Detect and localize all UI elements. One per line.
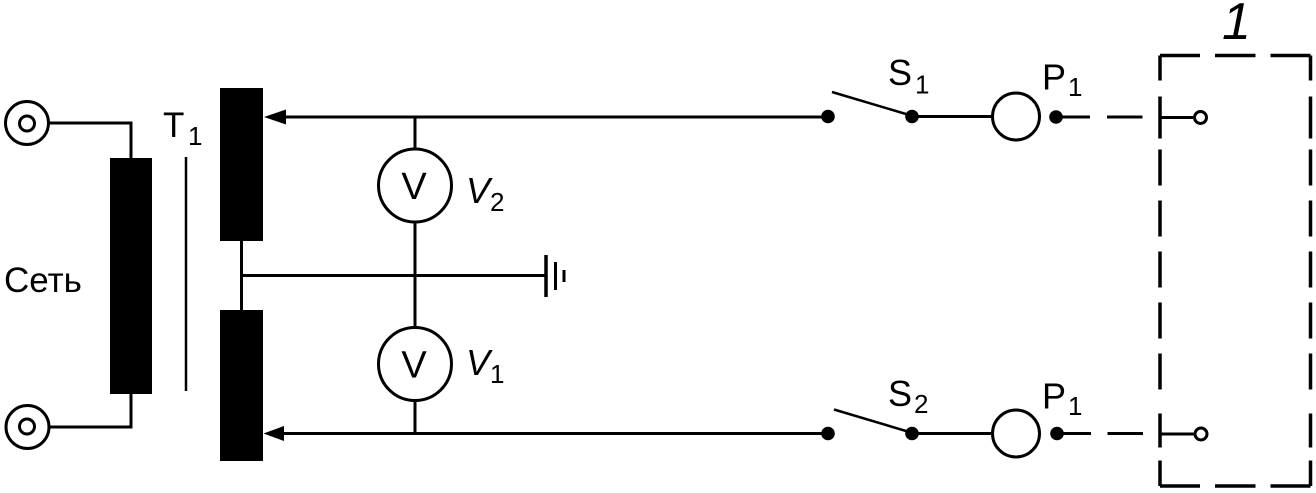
top output wire (270, 116, 828, 119)
arrow into top secondary (264, 110, 286, 125)
connector circle (bottom) (1195, 428, 1207, 440)
unit 1 dashed enclosure right edge (1309, 56, 1313, 487)
svg-text:T: T (163, 106, 184, 145)
meter branch vertical wire (top) (414, 117, 417, 276)
switch S1 blade (832, 92, 911, 116)
svg-text:1: 1 (915, 70, 929, 100)
node dot (switch S1 right contact) (905, 110, 919, 124)
bottom output wire (268, 432, 828, 435)
transformer T1 secondary winding bottom (220, 310, 263, 461)
svg-text:1: 1 (1068, 391, 1082, 421)
dash segment to unit 1 (bottom) (1108, 432, 1144, 435)
transformer T1 secondary winding top (220, 88, 263, 241)
node dot after lamp (bottom) (1050, 427, 1064, 441)
transformer T1 primary winding (110, 158, 152, 394)
node dot after lamp (top) (1049, 110, 1063, 124)
connector circle (top) (1195, 112, 1207, 124)
ground symbol (544, 255, 548, 297)
switch S2 blade (834, 410, 911, 433)
lamp P1 (bottom) (993, 410, 1040, 457)
svg-text:Сеть: Сеть (4, 261, 82, 300)
unit 1 dashed enclosure left edge (1158, 56, 1162, 487)
wire inside unit (top) (1160, 116, 1193, 119)
node dot (switch S2 left contact) (821, 427, 835, 441)
voltmeter V2 (379, 149, 452, 222)
unit 1 dashed enclosure top edge (1160, 54, 1311, 58)
wire S1 to lamp (912, 115, 992, 118)
lamp P1 (top) (993, 93, 1040, 140)
svg-text:S: S (888, 52, 912, 93)
svg-text:1: 1 (188, 121, 202, 151)
voltmeter V1 (379, 328, 452, 401)
svg-text:V: V (401, 166, 427, 208)
node dot (switch S1 left contact) (821, 110, 835, 124)
unit 1 dashed enclosure bottom edge (1160, 484, 1311, 488)
terminal bottom (mains plug) (6, 406, 49, 449)
center tap wire (240, 241, 243, 310)
wire S2 to lamp (912, 432, 992, 435)
svg-text:V: V (466, 170, 493, 211)
svg-text:1: 1 (1222, 0, 1251, 51)
arrow into bottom secondary (264, 426, 285, 441)
svg-text:S: S (888, 373, 912, 414)
middle wire to ground (242, 274, 546, 277)
svg-text:P: P (1042, 57, 1066, 98)
svg-text:1: 1 (1068, 72, 1082, 102)
svg-text:1: 1 (490, 359, 504, 389)
wire from top terminal to primary (48, 123, 131, 160)
dash segment to unit 1 (top) (1107, 116, 1143, 119)
wire from primary bottom to bottom terminal (48, 392, 131, 427)
svg-text:P: P (1042, 376, 1066, 417)
node dot (switch S2 right contact) (905, 427, 919, 441)
wire inside unit (bottom) (1160, 433, 1194, 436)
svg-text:V: V (466, 342, 493, 383)
svg-text:2: 2 (914, 389, 928, 419)
svg-text:V: V (401, 345, 427, 387)
svg-text:2: 2 (490, 187, 504, 217)
wire stub after dot (bottom) (1057, 432, 1091, 435)
transformer T1 core (185, 157, 188, 391)
terminal top (mains plug) (6, 102, 49, 145)
wire stub after dot (top) (1056, 116, 1090, 119)
meter branch vertical wire (bottom) (414, 276, 417, 434)
